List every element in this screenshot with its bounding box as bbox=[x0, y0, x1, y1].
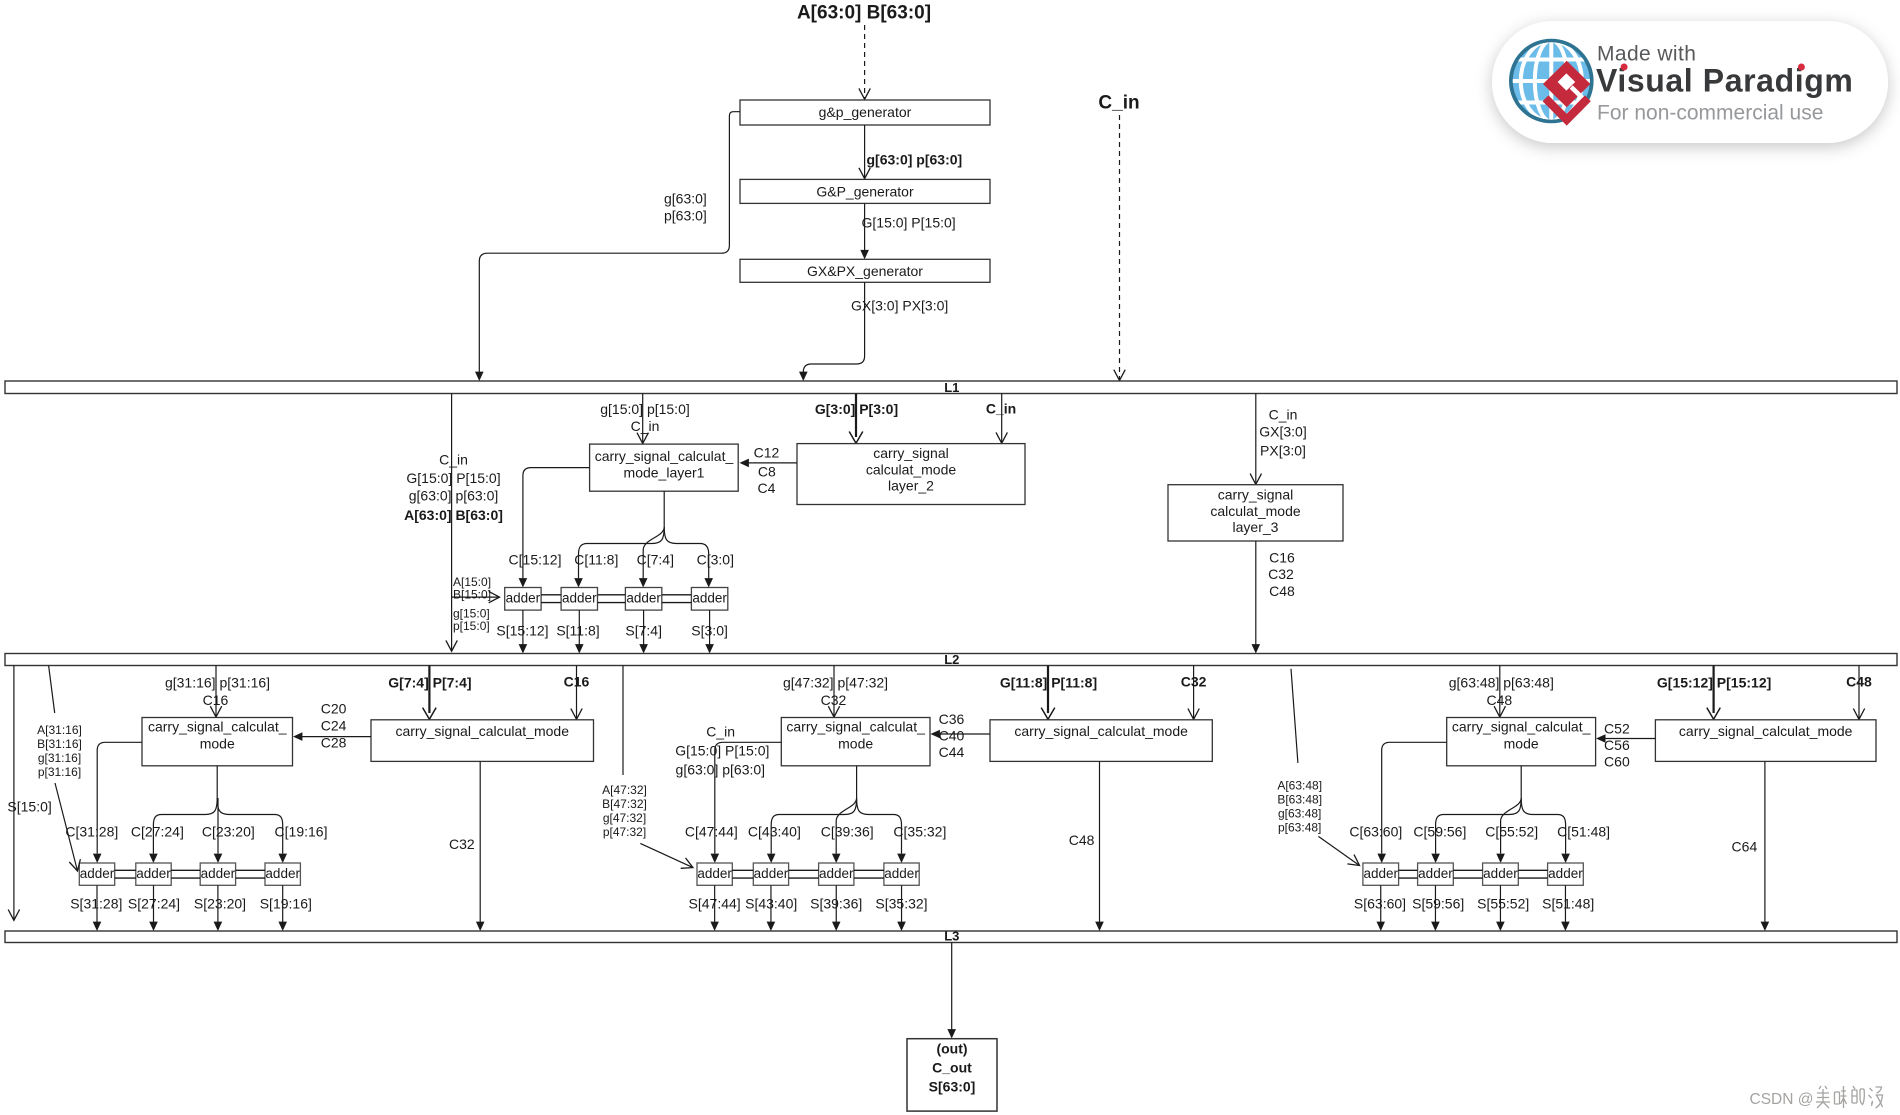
wire dashed A/B bus into g&p_generator bbox=[864, 25, 866, 99]
adder U14 (group 1) bbox=[884, 863, 919, 885]
svg-text:A[31:16]: A[31:16] bbox=[37, 723, 82, 737]
wire carry feed from right box to left box (group 2) bbox=[1604, 738, 1655, 740]
svg-text:carry_signal_calculat_mode: carry_signal_calculat_mode bbox=[395, 723, 569, 739]
svg-text:C_in: C_in bbox=[1098, 93, 1139, 114]
svg-text:B[31:16]: B[31:16] bbox=[37, 737, 82, 751]
adder U12 (L1 row) bbox=[561, 588, 597, 611]
adder U04 (group 0) bbox=[265, 863, 300, 885]
svg-text:carry_signal: carry_signal bbox=[873, 445, 948, 461]
svg-text:g&p_generator: g&p_generator bbox=[819, 104, 912, 120]
wire A/B/g/p[31:16] into adder 1 (lower diagonal, group 0) bbox=[55, 783, 78, 871]
svg-text:adder: adder bbox=[1548, 866, 1583, 881]
svg-text:S[59:56]: S[59:56] bbox=[1412, 896, 1464, 912]
bus bar L2 bbox=[5, 654, 1897, 666]
svg-text:C48: C48 bbox=[1069, 832, 1095, 848]
adder U14 (L1 row) bbox=[691, 588, 727, 611]
wire A/B/g/p[63:48] into adder 1 (lower diagonal, group 2) bbox=[1318, 836, 1359, 865]
wire G&P_generator to GX&PX_generator bbox=[864, 203, 866, 250]
wire carry tree from left box to adders (group 2) bbox=[1520, 766, 1522, 798]
svg-text:C_in: C_in bbox=[631, 418, 660, 434]
wire L3 to output block bbox=[951, 943, 953, 1030]
svg-text:B[15:0]: B[15:0] bbox=[453, 588, 491, 602]
wire bus G[15:12] P[15:12] from L2 into right box (group 2) bbox=[1712, 666, 1714, 714]
svg-text:adder: adder bbox=[136, 866, 171, 881]
wire bus G[7:4] P[7:4] from L2 into right box (group 0) bbox=[428, 666, 430, 714]
svg-text:mode: mode bbox=[200, 736, 235, 752]
adder U01 (group 0) bbox=[79, 863, 114, 885]
svg-text:g[63:0]: g[63:0] bbox=[664, 191, 707, 207]
wire GX&PX_generator output to L1 bbox=[803, 282, 864, 372]
wire g/p[63:48] C from L2 into carry_signal_calculat_mode (group 2) bbox=[1499, 666, 1501, 717]
svg-text:C8: C8 bbox=[758, 464, 776, 480]
wire C16 from L2 into right box (group 0) bbox=[576, 666, 578, 720]
svg-text:g[63:48] p[63:48]: g[63:48] p[63:48] bbox=[1449, 674, 1554, 690]
svg-text:C16: C16 bbox=[203, 692, 229, 708]
svg-text:C52: C52 bbox=[1604, 720, 1630, 736]
svg-text:C40: C40 bbox=[939, 727, 965, 743]
bus bar L1 bbox=[5, 381, 1897, 394]
wire A/B/g/p[47:32] from L2 (upper segment, group 1) bbox=[622, 666, 624, 776]
svg-text:carry_signal_calculat_: carry_signal_calculat_ bbox=[786, 719, 925, 735]
svg-text:g[31:16]: g[31:16] bbox=[38, 751, 81, 765]
svg-text:C16: C16 bbox=[564, 674, 590, 690]
svg-text:g[47:32]: g[47:32] bbox=[603, 811, 646, 825]
wire carry feed from right box to left box (group 0) bbox=[301, 736, 371, 738]
wire left branch carry into adder 1 (group 0) bbox=[97, 742, 142, 853]
wire carry tree from left box to adders (group 1) bbox=[856, 766, 858, 798]
wire C48 from right box to L3 (group 1) bbox=[1099, 761, 1101, 922]
wire g&p_generator left route to L1 bbox=[479, 112, 740, 373]
adder U13 (group 1) bbox=[819, 863, 854, 885]
wire A/B/g/p[15:0] input into first adder bbox=[451, 596, 453, 598]
svg-text:G[11:8] P[11:8]: G[11:8] P[11:8] bbox=[1000, 674, 1097, 690]
svg-text:For non-commercial use: For non-commercial use bbox=[1597, 101, 1823, 124]
svg-text:p[47:32]: p[47:32] bbox=[603, 825, 646, 839]
svg-text:C24: C24 bbox=[321, 718, 347, 734]
svg-text:C[59:56]: C[59:56] bbox=[1413, 824, 1466, 840]
wire L1 to carry_signal_calculat_mode_layer1 bbox=[642, 394, 644, 444]
wire left branch carry into adder 1 (group 2) bbox=[1382, 742, 1447, 853]
svg-text:C_in: C_in bbox=[439, 452, 468, 468]
svg-text:C[19:16]: C[19:16] bbox=[275, 824, 328, 840]
svg-text:S[11:8]: S[11:8] bbox=[556, 623, 599, 639]
block GX&PX_generator bbox=[740, 259, 990, 282]
svg-text:p[15:0]: p[15:0] bbox=[453, 619, 490, 633]
svg-text:B[47:32]: B[47:32] bbox=[602, 797, 647, 811]
wire g/p[47:32] C from L2 into carry_signal_calculat_mode (group 1) bbox=[833, 666, 835, 717]
svg-text:G[7:4] P[7:4]: G[7:4] P[7:4] bbox=[388, 674, 471, 690]
svg-text:C20: C20 bbox=[321, 701, 347, 717]
svg-text:C32: C32 bbox=[1181, 674, 1207, 690]
svg-text:carry_signal_calculat_: carry_signal_calculat_ bbox=[595, 448, 734, 464]
svg-text:adder: adder bbox=[884, 866, 919, 881]
svg-text:adder: adder bbox=[506, 590, 541, 605]
svg-text:adder: adder bbox=[697, 866, 732, 881]
svg-text:C56: C56 bbox=[1604, 737, 1630, 753]
logo red diamond emblem bbox=[1543, 61, 1590, 108]
svg-text:adder: adder bbox=[1363, 866, 1398, 881]
svg-text:C28: C28 bbox=[321, 735, 347, 751]
wire C64 from right box to L3 (group 2) bbox=[1764, 761, 1766, 922]
wire layer1 left branch C[15:12] to adder bbox=[523, 468, 590, 579]
svg-text:adder: adder bbox=[80, 866, 115, 881]
block carry_signal_calculat_mode_layer1 bbox=[590, 444, 739, 491]
wire g&p_generator to G&P_generator bbox=[864, 125, 866, 179]
wire dashed C_in into L1 bbox=[1119, 115, 1121, 380]
svg-text:C[39:36]: C[39:36] bbox=[821, 824, 874, 840]
wire left branch carry into adder 1 (group 1) bbox=[715, 742, 782, 853]
svg-text:C32: C32 bbox=[449, 836, 475, 852]
svg-text:carry_signal_calculat_mode: carry_signal_calculat_mode bbox=[1679, 723, 1853, 739]
svg-text:C[3:0]: C[3:0] bbox=[697, 552, 734, 568]
adder U24 (group 2) bbox=[1548, 863, 1584, 885]
svg-text:C12: C12 bbox=[754, 445, 780, 461]
svg-text:(out): (out) bbox=[936, 1041, 967, 1057]
bus bar L3 bbox=[5, 931, 1897, 943]
wire L1 to carry_signal calculat_mode layer_3 bbox=[1255, 394, 1257, 485]
svg-text:G[15:0] P[15:0]: G[15:0] P[15:0] bbox=[406, 470, 500, 486]
svg-text:C48: C48 bbox=[1486, 692, 1512, 708]
svg-text:S[23:20]: S[23:20] bbox=[194, 896, 246, 912]
wire A/B/g/p[63:48] from L2 (upper segment, group 2) bbox=[1291, 669, 1298, 763]
wire A/B/g/p[31:16] from L2 (upper segment, group 0) bbox=[49, 666, 55, 714]
svg-text:G[15:0] P[15:0]: G[15:0] P[15:0] bbox=[675, 743, 769, 759]
block carry_signal calculat_mode layer_2 bbox=[797, 444, 1025, 505]
svg-text:C_out: C_out bbox=[932, 1060, 972, 1076]
block carry_signal_calculat_mode left (group 2) bbox=[1447, 718, 1596, 766]
svg-text:S[55:52]: S[55:52] bbox=[1477, 896, 1529, 912]
svg-text:CSDN @: CSDN @ bbox=[1750, 1091, 1814, 1108]
svg-text:carry_signal_calculat_: carry_signal_calculat_ bbox=[148, 719, 287, 735]
svg-text:G[15:12] P[15:12]: G[15:12] P[15:12] bbox=[1657, 674, 1771, 690]
svg-text:C[27:24]: C[27:24] bbox=[131, 824, 184, 840]
svg-text:L1: L1 bbox=[944, 380, 959, 395]
svg-text:C32: C32 bbox=[821, 692, 847, 708]
svg-text:S[31:28]: S[31:28] bbox=[70, 896, 122, 912]
wire carry ripple between adders (group 0) bbox=[115, 869, 136, 871]
svg-text:A[47:32]: A[47:32] bbox=[602, 783, 647, 797]
svg-text:layer_3: layer_3 bbox=[1233, 519, 1279, 535]
svg-text:L2: L2 bbox=[944, 652, 959, 667]
svg-text:C_in: C_in bbox=[1269, 407, 1298, 423]
svg-text:C[51:48]: C[51:48] bbox=[1557, 824, 1610, 840]
block G&P_generator bbox=[740, 179, 990, 203]
svg-text:C64: C64 bbox=[1732, 838, 1758, 854]
svg-text:C[31:28]: C[31:28] bbox=[65, 824, 118, 840]
wire carry tree from left box to adders (group 0) bbox=[216, 766, 218, 798]
logo globe bbox=[1511, 41, 1592, 122]
svg-text:adder: adder bbox=[265, 866, 300, 881]
svg-text:G[3:0] P[3:0]: G[3:0] P[3:0] bbox=[815, 401, 898, 417]
svg-text:L3: L3 bbox=[944, 929, 959, 944]
svg-text:A[63:48]: A[63:48] bbox=[1277, 778, 1322, 792]
svg-text:mode_layer1: mode_layer1 bbox=[624, 465, 705, 481]
block output (out) C_out S[63:0] bbox=[907, 1039, 997, 1111]
svg-text:calculat_mode: calculat_mode bbox=[866, 461, 956, 477]
svg-text:PX[3:0]: PX[3:0] bbox=[1260, 443, 1306, 459]
svg-text:C60: C60 bbox=[1604, 753, 1630, 769]
svg-text:C48: C48 bbox=[1846, 674, 1872, 690]
wire carry ripple between adders (group 1) bbox=[732, 869, 753, 871]
wire S outputs from adders to L3 (group 1) bbox=[714, 885, 716, 922]
wire S[15:0] from L2 to L3 bbox=[13, 666, 15, 921]
svg-text:Visual Paradigm: Visual Paradigm bbox=[1596, 63, 1853, 99]
wire bus G[11:8] P[11:8] from L2 into right box (group 1) bbox=[1047, 666, 1049, 714]
svg-text:carry_signal_calculat_mode: carry_signal_calculat_mode bbox=[1014, 723, 1188, 739]
svg-text:p[31:16]: p[31:16] bbox=[38, 765, 81, 779]
svg-text:S[19:16]: S[19:16] bbox=[260, 896, 312, 912]
adder U22 (group 2) bbox=[1418, 863, 1454, 885]
svg-text:S[51:48]: S[51:48] bbox=[1542, 896, 1594, 912]
block carry_signal calculat_mode layer_3 bbox=[1168, 485, 1343, 541]
wire C48 from L2 into right box (group 2) bbox=[1858, 666, 1860, 720]
wire L1 passthrough signals to L2 bbox=[451, 394, 453, 652]
svg-text:g[31:16] p[31:16]: g[31:16] p[31:16] bbox=[165, 674, 270, 690]
wire g/p[31:16] C from L2 into carry_signal_calculat_mode (group 0) bbox=[215, 666, 217, 717]
svg-text:G&P_generator: G&P_generator bbox=[816, 184, 914, 200]
svg-text:calculat_mode: calculat_mode bbox=[1210, 503, 1300, 519]
wire carry feed from right box to left box (group 1) bbox=[939, 733, 991, 735]
svg-text:GX[3:0]: GX[3:0] bbox=[1259, 424, 1306, 440]
svg-text:g[63:48]: g[63:48] bbox=[1278, 806, 1321, 820]
svg-text:g[15:0] p[15:0]: g[15:0] p[15:0] bbox=[600, 401, 690, 417]
wire carry ripple between L1 adders bbox=[541, 594, 561, 596]
adder U21 (group 2) bbox=[1363, 863, 1399, 885]
wire C32 from L2 into right box (group 1) bbox=[1193, 666, 1195, 720]
wire S outputs from adders to L3 (group 2) bbox=[1380, 885, 1382, 922]
wire bus G[3:0] P[3:0] from L1 to layer_2 bbox=[855, 394, 857, 438]
adder U13 (L1 row) bbox=[625, 588, 661, 611]
svg-text:C16: C16 bbox=[1269, 550, 1295, 566]
block carry_signal_calculat_mode right (group 2) bbox=[1655, 720, 1876, 762]
svg-text:g[63:0] p[63:0]: g[63:0] p[63:0] bbox=[676, 761, 766, 777]
block g&p_generator bbox=[740, 100, 990, 125]
svg-text:g[63:0] p[63:0]: g[63:0] p[63:0] bbox=[409, 488, 499, 504]
adder U12 (group 1) bbox=[753, 863, 788, 885]
svg-text:adder: adder bbox=[201, 866, 236, 881]
svg-text:adder: adder bbox=[819, 866, 854, 881]
svg-text:S[15:0]: S[15:0] bbox=[7, 798, 51, 814]
svg-text:C48: C48 bbox=[1269, 583, 1295, 599]
svg-text:S[63:60]: S[63:60] bbox=[1354, 896, 1406, 912]
svg-text:C[7:4]: C[7:4] bbox=[637, 552, 674, 568]
svg-text:A[63:0] B[63:0]: A[63:0] B[63:0] bbox=[404, 507, 503, 523]
wire layer1 output tree to adders bbox=[663, 491, 665, 527]
svg-text:B[63:48]: B[63:48] bbox=[1277, 792, 1322, 806]
wire S outputs from adders to L3 (group 0) bbox=[96, 885, 98, 922]
wire C12 C8 C4 from layer_2 to layer1 bbox=[748, 462, 798, 464]
svg-text:adder: adder bbox=[1483, 866, 1518, 881]
svg-text:C[47:44]: C[47:44] bbox=[685, 824, 738, 840]
svg-text:C[63:60]: C[63:60] bbox=[1349, 824, 1402, 840]
svg-text:adder: adder bbox=[754, 866, 789, 881]
wire layer_3 output C16 C32 C48 to L2 bbox=[1255, 541, 1257, 645]
svg-text:layer_2: layer_2 bbox=[888, 478, 934, 494]
svg-text:carry_signal_calculat_: carry_signal_calculat_ bbox=[1452, 719, 1591, 735]
logo Visual Paradigm badge pill bbox=[1492, 21, 1888, 143]
svg-text:adder: adder bbox=[562, 590, 597, 605]
svg-text:p[63:48]: p[63:48] bbox=[1278, 820, 1321, 834]
svg-text:C[35:32]: C[35:32] bbox=[893, 824, 946, 840]
svg-text:mode: mode bbox=[1504, 736, 1539, 752]
adder U23 (group 2) bbox=[1483, 863, 1519, 885]
block carry_signal_calculat_mode left (group 1) bbox=[781, 718, 930, 766]
svg-text:A[63:0] B[63:0]: A[63:0] B[63:0] bbox=[797, 3, 931, 24]
svg-text:g[63:0] p[63:0]: g[63:0] p[63:0] bbox=[867, 152, 963, 168]
svg-text:C_in: C_in bbox=[706, 724, 735, 740]
svg-text:C32: C32 bbox=[1268, 566, 1294, 582]
block carry_signal_calculat_mode right (group 0) bbox=[371, 720, 594, 762]
wire A/B/g/p[47:32] into adder 1 (lower diagonal, group 1) bbox=[640, 843, 693, 867]
svg-text:C[23:20]: C[23:20] bbox=[202, 824, 255, 840]
block carry_signal_calculat_mode left (group 0) bbox=[142, 718, 293, 766]
svg-text:GX&PX_generator: GX&PX_generator bbox=[807, 263, 923, 279]
svg-text:S[63:0]: S[63:0] bbox=[929, 1079, 976, 1095]
adder U02 (group 0) bbox=[136, 863, 171, 885]
adder U11 (group 1) bbox=[697, 863, 732, 885]
wire carry ripple between adders (group 2) bbox=[1399, 869, 1418, 871]
svg-text:G[15:0] P[15:0]: G[15:0] P[15:0] bbox=[862, 215, 956, 231]
svg-text:p[63:0]: p[63:0] bbox=[664, 208, 707, 224]
svg-text:C44: C44 bbox=[939, 744, 965, 760]
block carry_signal_calculat_mode right (group 1) bbox=[990, 720, 1212, 762]
svg-text:C[43:40]: C[43:40] bbox=[748, 824, 801, 840]
svg-text:adder: adder bbox=[692, 590, 727, 605]
svg-text:g[47:32] p[47:32]: g[47:32] p[47:32] bbox=[783, 674, 888, 690]
svg-text:adder: adder bbox=[1418, 866, 1453, 881]
svg-text:GX[3:0] PX[3:0]: GX[3:0] PX[3:0] bbox=[851, 298, 948, 314]
wire C32 from right box to L3 (group 0) bbox=[479, 761, 481, 922]
wire C_in from L1 to layer_2 bbox=[1001, 394, 1003, 444]
svg-text:C36: C36 bbox=[939, 711, 965, 727]
adder U03 (group 0) bbox=[200, 863, 235, 885]
wire S outputs from L1 adders to L2 bbox=[522, 610, 524, 645]
svg-text:C[11:8]: C[11:8] bbox=[574, 552, 618, 568]
adder U11 (L1 row) bbox=[505, 588, 541, 611]
svg-text:carry_signal: carry_signal bbox=[1218, 487, 1293, 503]
svg-text:C4: C4 bbox=[758, 480, 776, 496]
svg-text:mode: mode bbox=[838, 736, 873, 752]
svg-text:adder: adder bbox=[626, 590, 661, 605]
svg-text:C_in: C_in bbox=[986, 401, 1016, 417]
svg-text:C[15:12]: C[15:12] bbox=[509, 552, 562, 568]
svg-text:C[55:52]: C[55:52] bbox=[1485, 824, 1538, 840]
